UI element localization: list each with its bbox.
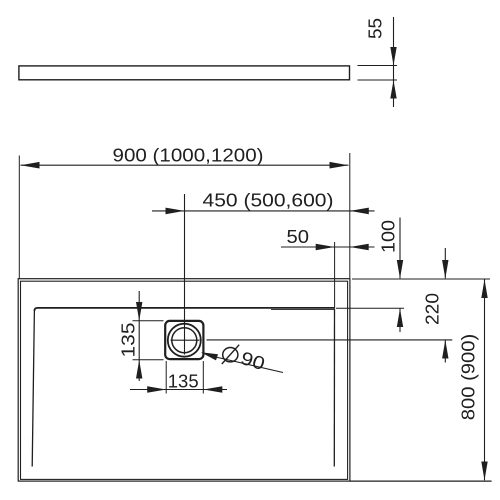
dim 800 arrow down (481, 462, 487, 481)
dim 55 extension line bottom (358, 79, 398, 81)
dim 450 arrow pointing left (350, 208, 369, 215)
dim 55 dimension line (393, 17, 395, 107)
drain outer circle (168, 324, 201, 357)
dim 800 dimension line (484, 279, 486, 480)
dim 800 arrow up (481, 279, 487, 298)
drain square (165, 321, 203, 359)
dim 100 arrow up with tail (397, 309, 403, 327)
inner rim top edge step line (271, 309, 334, 311)
dim h135 right extension line (202, 361, 204, 394)
diameter 90 symbol slash (222, 345, 239, 364)
dim v135 arrow up (136, 360, 142, 379)
dim v135 tick bottom (133, 359, 164, 361)
drain inner circle (172, 328, 197, 353)
svg-text:55: 55 (365, 18, 386, 39)
dim 50 dimension line (281, 246, 375, 248)
dim 900 left extension line (18, 156, 20, 279)
side view tray bar (19, 66, 350, 80)
dim 100 arrow down (397, 260, 403, 279)
plan view outer rectangle inner offset line (21, 281, 348, 479)
inner rim top edge (35, 308, 335, 311)
diameter 90 leader arrow (201, 352, 218, 360)
dim 55 arrow down (390, 47, 396, 65)
svg-text:220: 220 (422, 293, 443, 325)
dim v135 dimension line (138, 291, 140, 381)
drain crosshair horizontal (171, 339, 200, 341)
diameter 90 symbol circle (223, 348, 238, 362)
dim 450 dimension line (152, 210, 375, 212)
dim h135 left extension line (165, 361, 167, 394)
tray top edge right extension line (352, 278, 490, 280)
svg-text:100: 100 (378, 220, 399, 253)
drain center vertical line (184, 194, 186, 355)
dim 900 / tray right edge upper extension line (349, 153, 351, 279)
dim v135 tick top (133, 320, 164, 322)
plan view outer rectangle (18, 279, 350, 481)
dim 50 arrow pointing left (350, 244, 369, 251)
inner rim right edge (333, 309, 335, 467)
svg-text:135: 135 (168, 370, 199, 391)
dim 50 / inner rim right extension line (334, 242, 336, 308)
dim 900 arrow right (330, 162, 349, 169)
svg-text:800 (900): 800 (900) (458, 334, 479, 421)
dim 55 arrow up (390, 80, 396, 98)
drain center horizontal extension line (207, 339, 453, 341)
dim 450 arrow pointing right (166, 208, 185, 215)
diameter 90 leader line (214, 357, 283, 373)
dim 220 arrow down (442, 260, 448, 279)
inner rim top edge right extension line (336, 307, 404, 309)
dim h135 dimension line (130, 389, 227, 391)
svg-text:450 (500,600): 450 (500,600) (203, 190, 334, 211)
dim v135 arrow down (136, 302, 142, 321)
dim h135 arrow pointing right (147, 386, 166, 393)
dim h135 arrow pointing left (203, 386, 222, 393)
svg-text:135: 135 (118, 323, 139, 358)
dim 220 dimension line upper (444, 248, 446, 278)
dim 50 arrow pointing right (316, 244, 335, 251)
svg-text:900 (1000,1200): 900 (1000,1200) (113, 144, 264, 165)
inner rim left edge (32, 310, 34, 467)
dim 900 arrow left (21, 162, 40, 169)
dim 220 arrow up with tail (442, 340, 448, 359)
dim 100 dimension line upper (399, 218, 401, 279)
svg-text:50: 50 (287, 226, 310, 247)
dim 900 dimension line (21, 164, 349, 166)
tray bottom edge right extension line (350, 480, 492, 482)
dim 55 extension line top (358, 65, 398, 67)
